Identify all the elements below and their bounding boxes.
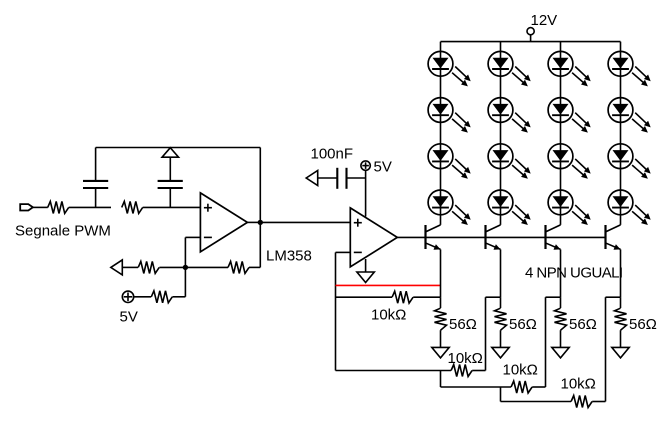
ground arrow GND4 [552, 347, 569, 358]
resistor R4 (feedback) [228, 261, 249, 273]
wire rail right drop to U1A output node [259, 148, 261, 223]
wire R1 to node A [69, 206, 111, 208]
wire emitter node to R9 [620, 297, 622, 308]
svg-text:LM358: LM358 [266, 248, 312, 265]
wire LED column 4 [620, 42, 622, 225]
ground arrow GND5 [612, 347, 629, 358]
capacitor C2 [158, 181, 183, 188]
wire A1 to C2 [169, 157, 171, 181]
svg-text:56Ω: 56Ω [629, 316, 657, 333]
wire R7 to ground [500, 330, 502, 347]
wire Q2 emitter down [500, 249, 502, 297]
wire C1 to input wire [95, 188, 97, 207]
LED D9 [548, 51, 591, 86]
wire W3 up to Q4 emitter node [606, 297, 621, 401]
transistor Q2 [486, 225, 501, 250]
svg-text:4 NPN UGUALI: 4 NPN UGUALI [525, 264, 623, 281]
svg-text:100nF: 100nF [311, 146, 354, 163]
LED D8 [488, 190, 531, 225]
svg-text:56Ω: 56Ω [569, 316, 597, 333]
junction dot U1A output node [258, 220, 263, 225]
ground arrow GND1 [357, 272, 374, 283]
wire R6 to ground [440, 330, 442, 347]
resistor R6 56 ohm [435, 308, 447, 330]
wire C3 to 5V drop [347, 177, 366, 179]
ground arrow GND2 [432, 347, 449, 358]
wire emitter node to R8 [560, 297, 562, 308]
ground arrow GND3 [492, 347, 509, 358]
net arrow A1 (up) [162, 148, 179, 158]
resistor R3 [138, 261, 159, 273]
transistor Q1 [426, 225, 441, 250]
resistor R7 56 ohm [495, 308, 507, 330]
wire P3 to LED rail [530, 35, 532, 42]
wire J1 to R1 [33, 206, 48, 208]
svg-text:10kΩ: 10kΩ [448, 350, 483, 367]
resistor R9 56 ohm [615, 308, 627, 330]
wire R10 to Q1 emitter node [413, 296, 440, 298]
LED D6 [488, 98, 531, 133]
wire LED column 1 [440, 42, 442, 225]
wire W1 left segment [336, 370, 452, 372]
wire LED column 3 [560, 42, 562, 225]
resistor R12 10k [511, 381, 532, 393]
wire R3 to node B [159, 266, 185, 268]
wire U1B output base rail [397, 236, 605, 238]
op-amp U1A [200, 193, 247, 252]
LED D16 [608, 190, 651, 225]
wire emitter node to R7 [500, 297, 502, 308]
wire output node down to R4 [259, 222, 261, 267]
wire LED column 2 [500, 42, 502, 225]
wire W2 right segment [532, 386, 545, 388]
wire P1 to R5 [133, 296, 151, 298]
wire Q1 emitter down [440, 249, 442, 297]
LED D13 [608, 51, 651, 86]
resistor R1 [48, 201, 69, 213]
wire R9 to ground [620, 330, 622, 347]
resistor R8 56 ohm [555, 308, 567, 330]
wire LED supply rail [441, 41, 621, 43]
wire W2 up to Q3 emitter node [546, 297, 561, 387]
svg-text:5V: 5V [374, 159, 392, 176]
wire W2 drop [440, 371, 442, 388]
wire node B to R4 [185, 266, 228, 268]
highlight wire (red) [336, 284, 441, 286]
LED D12 [548, 190, 591, 225]
resistor R2 [122, 201, 143, 213]
wire C2 to input wire [169, 188, 171, 207]
wire W3 drop [500, 387, 502, 402]
wire A2 to C3 [318, 177, 338, 179]
wire W1 right segment [472, 370, 485, 372]
capacitor C3 100nF [337, 168, 346, 189]
terminal P3 12V [527, 28, 534, 35]
wire U1B inverting input [336, 252, 351, 370]
wire W1 up to Q2 emitter node [486, 297, 501, 370]
svg-text:12V: 12V [531, 12, 558, 29]
wire U1B V- pin to ground [365, 259, 367, 272]
transistor Q4 [606, 225, 621, 250]
LED D4 [428, 190, 471, 225]
wire R5 to node B drop [172, 296, 185, 298]
net arrow A2 (left, 100nF) [306, 171, 318, 186]
wire U1A output [247, 221, 260, 223]
wire Q3 emitter down [560, 249, 562, 297]
LED D7 [488, 144, 531, 179]
wire emitter node to R6 [440, 297, 442, 308]
LED D1 [428, 51, 471, 86]
LED D2 [428, 98, 471, 133]
wire U1A output to U1B [260, 221, 350, 223]
transistor Q3 [546, 225, 561, 250]
input terminal J1 (Segnale PWM) [20, 204, 33, 210]
svg-text:Segnale PWM: Segnale PWM [15, 223, 111, 240]
wire R8 to ground [560, 330, 562, 347]
wire P2 to U1B V+ pin [365, 170, 367, 216]
op-amp U1B [350, 208, 397, 267]
wire W2 left segment [441, 386, 512, 388]
capacitor C1 [83, 181, 108, 188]
resistor R5 [151, 291, 172, 303]
svg-text:56Ω: 56Ω [509, 316, 537, 333]
LED D14 [608, 98, 651, 133]
wire top feedback rail [96, 147, 261, 149]
wire R2 to U1A noninverting input [143, 206, 201, 208]
wire node B down to R5 row [184, 267, 186, 296]
wire rail left drop to C1 [95, 148, 97, 181]
LED D10 [548, 98, 591, 133]
wire W3 left segment [501, 401, 572, 403]
LED D5 [488, 51, 531, 86]
wire Q4 emitter down [620, 249, 622, 297]
resistor R10 10k [392, 291, 413, 303]
svg-text:10kΩ: 10kΩ [503, 361, 538, 378]
wire A3 to R3 [122, 266, 138, 268]
supply P2 +5V [361, 161, 370, 170]
svg-text:10kΩ: 10kΩ [561, 375, 596, 392]
net arrow A3 (left) [111, 260, 123, 275]
LED D15 [608, 144, 651, 179]
resistor R13 10k [571, 396, 592, 408]
junction dot node B [183, 265, 188, 270]
supply P1 +5V [122, 291, 133, 302]
svg-text:5V: 5V [120, 308, 138, 325]
wire W3 right segment [592, 401, 605, 403]
LED D3 [428, 144, 471, 179]
wire U1A inverting input [185, 237, 200, 267]
wire R4 to output drop [249, 266, 260, 268]
LED D11 [548, 144, 591, 179]
wire inverting node to R10 [336, 296, 393, 298]
svg-text:10kΩ: 10kΩ [371, 307, 406, 324]
svg-text:56Ω: 56Ω [449, 316, 477, 333]
resistor R11 10k [451, 365, 472, 377]
